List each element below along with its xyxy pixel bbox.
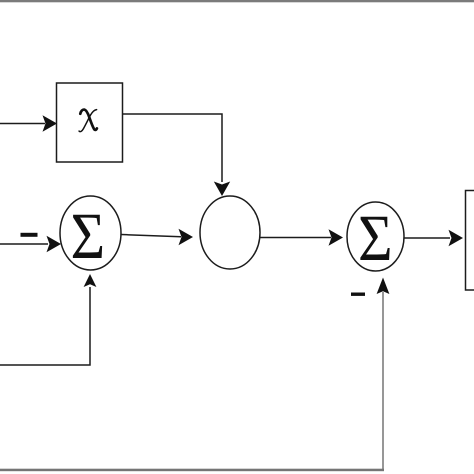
- arrowhead into summer 1 left: [47, 236, 62, 252]
- wire: bottom feedback run: [0, 469, 384, 472]
- arrowhead into summer 2 left: [329, 229, 344, 245]
- wire: multiplier to summer 2: [260, 237, 331, 239]
- wire: feedback riser to summer 2: [382, 292, 384, 470]
- summer 2 (sigma): [347, 202, 404, 271]
- wire: input to gain block: [0, 123, 45, 125]
- minus sign at summer 2: [351, 293, 365, 296]
- top border bar: [0, 0, 474, 2]
- gain block chi: [57, 83, 123, 162]
- multiplier node (circle): [200, 196, 260, 269]
- arrowhead into output block: [449, 230, 464, 246]
- value label chi: [80, 110, 97, 130]
- wire: input to summer 1: [0, 243, 48, 245]
- wire: feedback into summer 1 bottom: [0, 287, 90, 365]
- summer 1 sigma label: [73, 215, 102, 258]
- wire: gain block to multiplier (right then down): [123, 114, 223, 182]
- wire: summer 1 to multiplier: [121, 235, 181, 237]
- arrowhead into gain block: [43, 115, 58, 131]
- arrowhead into multiplier top: [214, 182, 230, 197]
- wire: summer 2 to output block: [404, 237, 450, 239]
- summer 1 (sigma): [60, 196, 121, 270]
- arrowhead into multiplier left: [179, 229, 194, 245]
- output block (clipped at right edge): [466, 191, 474, 291]
- arrowhead into summer 2 bottom: [377, 278, 390, 295]
- minus sign at summer 1: [21, 233, 38, 237]
- arrowhead into summer 1 bottom: [84, 274, 97, 287]
- summer 2 sigma label: [360, 217, 389, 260]
